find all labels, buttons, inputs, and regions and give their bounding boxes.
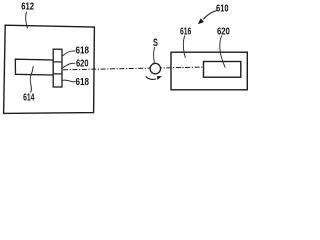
svg-text:618: 618 (76, 77, 90, 88)
svg-text:612: 612 (21, 2, 34, 13)
leader 620 left (62, 63, 75, 68)
leader 620 right (220, 36, 225, 68)
svg-text:620: 620 (217, 27, 230, 38)
svg-text:616: 616 (180, 27, 191, 38)
rotation arrow arc (146, 76, 156, 79)
leader 618 top (63, 51, 76, 56)
leader 614 (30, 66, 33, 92)
arrow 610 head (199, 19, 204, 24)
ring divider bottom (53, 73, 62, 75)
svg-text:618: 618 (76, 46, 90, 57)
arrow 610 curve (203, 11, 217, 20)
collar stack outline (53, 49, 62, 87)
svg-text:S: S (153, 37, 158, 49)
svg-text:610: 610 (216, 3, 229, 14)
leader 612 (26, 12, 28, 29)
magnet element 620 inside sensor (204, 62, 241, 78)
ring divider top (53, 61, 62, 63)
leader 618 bottom (62, 80, 75, 82)
leader S (154, 47, 155, 63)
svg-text:620: 620 (76, 59, 89, 70)
svg-text:614: 614 (23, 92, 35, 103)
rotation axis circle S (150, 63, 160, 73)
rotation arrowhead (157, 76, 162, 80)
sensor box 616 (171, 52, 247, 90)
leader 616 (183, 36, 185, 58)
housing box 612 (4, 25, 95, 113)
shaft 614 (15, 59, 53, 75)
axis dash-dot line (63, 67, 204, 70)
